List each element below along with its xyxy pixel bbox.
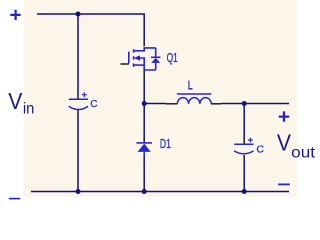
wire diode D1 to bottom rail — [143, 160, 145, 192]
wire input capacitor top lead stub (black) — [77, 94, 79, 99]
D1 triangle — [138, 144, 151, 152]
terminal + (Vout positive) — [279, 111, 289, 121]
svg-text:C: C — [256, 143, 264, 155]
wire switch node to inductor — [144, 103, 166, 105]
junction switch node — [142, 101, 147, 106]
Q1 body diode vertical — [155, 48, 157, 70]
Q1 source lead — [134, 64, 145, 66]
C input curved bottom plate — [69, 106, 88, 109]
wire output branch down to bottom rail — [243, 160, 245, 192]
svg-text:C: C — [90, 99, 97, 110]
Q1 body lead with arrow — [139, 58, 156, 70]
diode D1 — [136, 143, 152, 158]
D1 anode lead — [143, 152, 145, 158]
wire left branch down to input capacitor — [77, 14, 79, 94]
svg-text:in: in — [23, 101, 35, 118]
Q1 gate bar — [128, 52, 130, 64]
D1 cathode bar — [136, 142, 152, 144]
C output polarity + — [248, 138, 253, 143]
L overline — [177, 93, 212, 95]
Q1 body diode triangle — [151, 58, 160, 63]
Q1 body diode cathode bar — [151, 56, 160, 58]
junction output cap top — [242, 101, 247, 106]
Q1 gate lead (black) — [121, 63, 129, 65]
wire switch node vertical to diode D1 — [143, 80, 145, 139]
capacitor C (output) — [234, 144, 254, 153]
wire inductor right lead (black) — [211, 103, 221, 105]
transistor Q1 (n-channel MOSFET with body diode) — [121, 48, 156, 70]
C output curved bottom plate — [234, 151, 254, 154]
wire top rail from + terminal to MOSFET drain drop — [37, 14, 144, 42]
terminal - (Vin negative) — [9, 198, 20, 200]
junction input cap bottom — [76, 189, 81, 194]
svg-text:out: out — [291, 145, 315, 162]
wire diode D1 cathode stub (black) — [143, 138, 145, 142]
wire left branch down to bottom rail — [77, 116, 79, 192]
L humps — [177, 98, 211, 104]
terminal - (Vout negative) — [278, 183, 290, 185]
svg-text:L: L — [188, 79, 193, 93]
wire inductor to output terminal — [221, 103, 289, 105]
wire output capacitor bottom lead stub (black) — [243, 155, 245, 160]
wire diode D1 anode stub (black) — [143, 158, 145, 163]
wire output capacitor top lead stub (black) — [243, 138, 245, 144]
terminal + (Vin positive) — [10, 10, 20, 20]
Q1 drain lead — [134, 48, 156, 51]
wire output branch down to output capacitor — [243, 104, 245, 138]
C input polarity + — [82, 92, 87, 97]
junction diode bottom — [142, 189, 147, 194]
wire drain stub (black) — [143, 42, 145, 46]
Q1 body arrow head — [134, 55, 140, 61]
junction top rail / input cap — [76, 12, 81, 17]
wire inductor left lead (black) — [166, 103, 177, 105]
C input top plate — [69, 98, 88, 100]
label Vout — [277, 129, 316, 161]
svg-text:Q1: Q1 — [167, 50, 178, 65]
C output top plate — [234, 143, 253, 145]
svg-text:V: V — [8, 88, 23, 114]
inductor L — [177, 94, 212, 104]
label Vin — [8, 88, 34, 118]
wire bottom rail — [31, 191, 289, 193]
svg-text:V: V — [277, 129, 292, 155]
svg-text:D1: D1 — [160, 137, 171, 151]
junction output cap bottom — [242, 189, 247, 194]
Q1 channel segments — [133, 49, 135, 67]
capacitor C (input) — [69, 99, 88, 109]
wire input capacitor bottom lead stub (black) — [77, 110, 79, 116]
wire MOSFET source stub (black) — [143, 70, 145, 80]
